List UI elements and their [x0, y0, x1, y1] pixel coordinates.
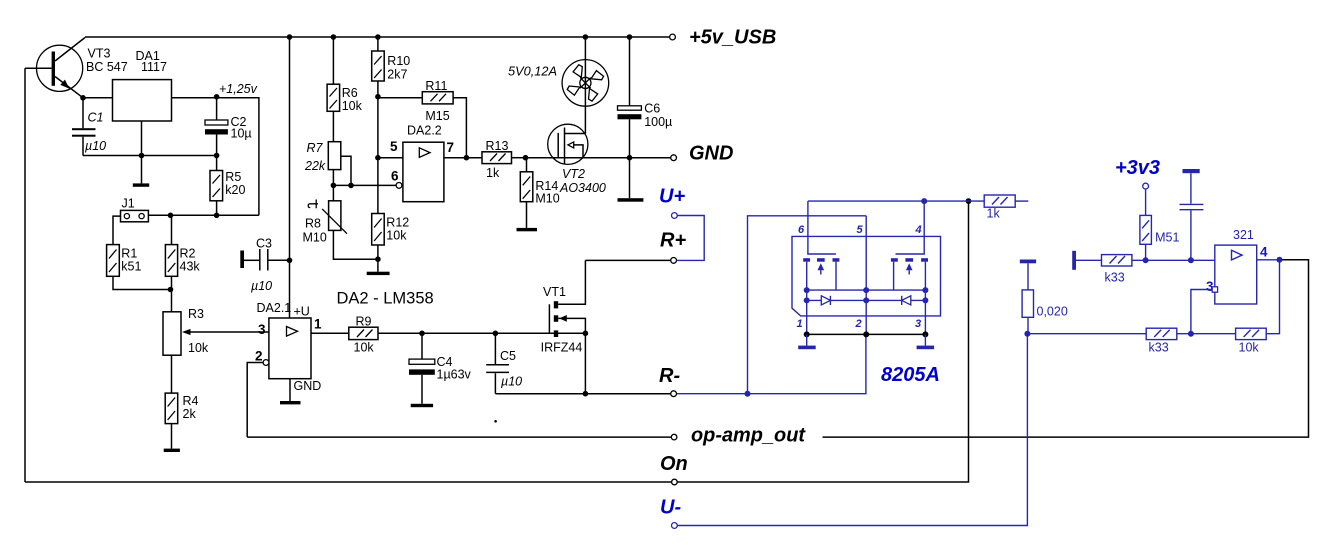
terminal R- [671, 391, 677, 397]
ground R14 [517, 228, 538, 231]
resistor R5 [210, 156, 246, 216]
node gnd row DA1 [139, 153, 145, 159]
terminal On [672, 479, 678, 485]
mosfet B drain column [893, 262, 895, 290]
capacitor C5 [486, 333, 522, 393]
wire DA1 out to +1,25v rail [172, 98, 259, 216]
terminal +3v3 [1143, 183, 1149, 189]
resistor k33 upper [1102, 255, 1132, 285]
capacitor C2 [205, 97, 252, 156]
8205A outline box [792, 236, 941, 316]
thermistor R8 [303, 185, 378, 259]
node J1 row R2 [168, 213, 174, 219]
mosfet B bars [891, 258, 898, 262]
svg-text:4: 4 [915, 224, 922, 236]
wire op-amp_out row [247, 436, 671, 438]
svg-text:op-amp_out: op-amp_out [691, 425, 806, 447]
node On to 1k rail junction [966, 198, 972, 204]
svg-text:5: 5 [390, 139, 398, 154]
resistor R2 [165, 215, 200, 289]
wire gnd row y156 [83, 155, 217, 157]
svg-text:10k: 10k [188, 341, 209, 355]
svg-text:4: 4 [1260, 245, 1268, 260]
mosfet A source column [806, 262, 808, 290]
node pin4 rail junction [921, 198, 927, 204]
resistor R1 [107, 245, 171, 290]
svg-text:+U: +U [294, 305, 310, 319]
wire to k33 upper [1076, 259, 1102, 261]
wire R- blue to 8205A [677, 334, 866, 393]
svg-text:+3v3: +3v3 [1115, 157, 1160, 179]
resistor R6 [327, 37, 363, 113]
mosfet A body arrow [818, 263, 825, 270]
svg-text:R+: R+ [660, 230, 686, 252]
svg-text:VT2: VT2 [562, 167, 585, 181]
svg-text:µ10: µ10 [501, 375, 522, 389]
diode D1 [821, 296, 830, 305]
svg-text:k20: k20 [225, 183, 245, 197]
regulator DA1 1117 [113, 49, 172, 121]
resistor 1k [984, 195, 1028, 221]
resistor k33 lower [1146, 328, 1177, 354]
ground R12 [377, 259, 379, 272]
svg-text:AO3400: AO3400 [559, 181, 606, 195]
node C4 junction [419, 331, 425, 337]
transistor VT3 [25, 38, 128, 98]
node top rail junction x629 [627, 34, 633, 40]
svg-text:C6: C6 [644, 102, 660, 116]
wire pin6 row [333, 184, 396, 186]
svg-text:10k: 10k [1239, 341, 1260, 355]
svg-text:M51: M51 [1155, 231, 1179, 245]
wire U- row [677, 334, 1027, 526]
resistor R10 [372, 37, 411, 97]
wire R- riser to pin5 [748, 216, 867, 394]
wire 1k rail y201 [808, 200, 984, 202]
ground pin3 [924, 334, 926, 345]
svg-text:R2: R2 [180, 247, 196, 261]
ground DA2.1 [289, 379, 291, 401]
node R7 bottom junction [331, 183, 337, 189]
svg-text:1: 1 [314, 317, 322, 332]
wire VT1 source down to R- row [584, 333, 586, 393]
wire k33 to op-amp input [1132, 259, 1215, 261]
wire 321 output [1257, 259, 1280, 261]
wire pin6 gate drop [808, 201, 836, 254]
svg-text:7: 7 [447, 140, 455, 155]
svg-text:321: 321 [1233, 228, 1254, 242]
wire R10 junction down to pin5 [377, 97, 379, 158]
node lower row junction [1188, 331, 1194, 337]
svg-text:R6: R6 [342, 86, 358, 100]
wire k33 to node [1177, 333, 1236, 335]
svg-text:BC 547: BC 547 [86, 60, 128, 74]
svg-text:k51: k51 [121, 260, 141, 274]
svg-text:M10: M10 [535, 192, 559, 206]
node M51 junction [1143, 257, 1149, 263]
wire pin3 column [924, 290, 926, 334]
svg-text:J1: J1 [122, 197, 135, 211]
svg-text:C3: C3 [256, 237, 272, 251]
wire +U vertical from top rail to DA2.1 [289, 37, 291, 318]
ground C4 [411, 404, 433, 407]
resistor R11 [378, 79, 467, 158]
wire U+ to R+ bracket [677, 216, 705, 261]
capacitor C6 [618, 37, 673, 158]
svg-text:6: 6 [798, 224, 805, 236]
svg-text:2k7: 2k7 [387, 68, 407, 82]
svg-text:1µ63v: 1µ63v [437, 368, 472, 382]
svg-text:µ10: µ10 [85, 139, 106, 153]
svg-text:1: 1 [797, 318, 803, 330]
terminal GND [671, 155, 677, 161]
wire pin1 column [806, 290, 808, 334]
svg-text:0,020: 0,020 [1037, 305, 1068, 319]
svg-text:10k: 10k [386, 229, 407, 243]
svg-text:R11: R11 [425, 79, 447, 93]
ground R4 [164, 449, 180, 452]
svg-text:1k: 1k [486, 166, 500, 180]
svg-text:M10: M10 [303, 231, 327, 245]
svg-text:R3: R3 [188, 307, 204, 321]
svg-text:22k: 22k [304, 159, 326, 173]
terminal op-amp_out [671, 434, 677, 440]
svg-text:5V0,12A: 5V0,12A [508, 65, 557, 79]
svg-text:DA2 - LM358: DA2 - LM358 [337, 290, 434, 308]
wire R3 wiper to DA2.1 pin3 with arrow [189, 331, 269, 333]
svg-text:VT3: VT3 [88, 47, 111, 61]
wire pin2 column [865, 216, 867, 335]
node VT3 emitter junction [80, 95, 86, 101]
wire emitter node to DA1 [83, 97, 113, 99]
wire VT3 base to On line (left edge) [24, 68, 26, 482]
node R1 R2 R3 junction [168, 287, 174, 293]
wire J1 row y215 [148, 214, 259, 216]
svg-text:k33: k33 [1149, 341, 1169, 355]
capacitor C4 [409, 333, 472, 404]
terminal R+ [671, 258, 677, 264]
node R10 R11 junction [375, 94, 381, 100]
wire On row right [677, 201, 968, 482]
node pin5 junction [375, 155, 381, 161]
svg-text:2k: 2k [183, 407, 197, 421]
terminal U- [672, 523, 678, 529]
node source row left [804, 287, 810, 293]
terminal +5v_USB [670, 34, 676, 40]
wire R- row [495, 393, 670, 395]
capacitor C3 [240, 237, 289, 294]
wire gate row to GND terminal [526, 157, 671, 159]
svg-text:U-: U- [660, 497, 681, 519]
svg-text:R-: R- [659, 365, 680, 387]
svg-text:VT1: VT1 [543, 285, 566, 299]
node diode row left [804, 297, 810, 303]
svg-text:GND: GND [689, 143, 733, 165]
op-amp 321 [1206, 228, 1268, 304]
resistor R9 [311, 315, 422, 355]
svg-text:43k: 43k [180, 260, 201, 274]
svg-text:1117: 1117 [141, 60, 167, 74]
svg-text:10µ: 10µ [231, 127, 252, 141]
node gnd row C2 [214, 153, 220, 159]
ground DA1 [141, 156, 143, 184]
node source row right [922, 287, 928, 293]
wire pins bottom row black [807, 333, 926, 335]
svg-text:3: 3 [258, 322, 266, 337]
op-amp DA2.1 [255, 301, 322, 393]
svg-text:1k: 1k [987, 207, 1001, 221]
svg-text:On: On [660, 453, 688, 475]
svg-text:100µ: 100µ [644, 115, 672, 129]
resistor 10k lower [1236, 328, 1267, 354]
node diode row right [922, 297, 928, 303]
svg-text:DA2.2: DA2.2 [407, 124, 442, 138]
wire R+ row [585, 259, 670, 261]
ground pin1 [806, 334, 808, 345]
node VT1 source junction [583, 331, 589, 337]
wire bottom row [1027, 333, 1146, 335]
wire +5v top rail [85, 36, 670, 38]
wire DA1 gnd pin [141, 121, 143, 156]
capacitor right section [1180, 169, 1204, 260]
wire pin4 gate drop [896, 201, 925, 254]
node 321 output junction [1277, 257, 1283, 263]
mosfet B source column [924, 262, 926, 290]
node shunt bottom junction [1024, 331, 1030, 337]
jumper J1 [121, 197, 149, 222]
mosfet B body arrow [906, 263, 913, 270]
node top rail junction x333 [331, 34, 337, 40]
svg-text:2: 2 [855, 318, 862, 330]
node pin1 bottom [804, 331, 810, 337]
svg-text:R9: R9 [356, 315, 372, 329]
op-amp DA2.2 [390, 124, 454, 202]
wire pin5 junction down to R12 [377, 158, 379, 214]
wire On row [25, 481, 671, 483]
stray dot [494, 420, 497, 423]
capacitor C1 [72, 98, 106, 156]
wire pin3 drop [1191, 290, 1212, 334]
wire pin5 to DA2.2 [378, 157, 403, 159]
node R- riser junction [745, 391, 751, 397]
svg-text:DA2.1: DA2.1 [257, 301, 292, 315]
resistor M51 [1140, 189, 1180, 260]
svg-text:R10: R10 [387, 54, 410, 68]
ground C6 [629, 158, 631, 199]
svg-text:C1: C1 [88, 111, 104, 125]
svg-text:R1: R1 [121, 247, 137, 261]
node C6 gnd row junction [627, 155, 633, 161]
node diode row mid [863, 297, 869, 303]
node top rail junction x585 [583, 34, 589, 40]
node DA2.2 out junction [464, 155, 470, 161]
svg-text:R7: R7 [307, 141, 324, 155]
node pin3 bottom [922, 331, 928, 337]
node top rail junction x378 [375, 34, 381, 40]
node C5 junction [493, 331, 499, 337]
node source row mid [863, 287, 869, 293]
svg-text:M15: M15 [425, 109, 449, 123]
svg-text:8205A: 8205A [881, 364, 940, 386]
trimmer R7 [304, 111, 351, 185]
resistor R14 [520, 158, 559, 228]
wire diode row y300 [807, 299, 926, 301]
resistor R4 [165, 393, 198, 449]
wire gate row to VT1 [422, 332, 585, 334]
svg-text:R4: R4 [183, 394, 199, 408]
svg-text:5: 5 [857, 224, 864, 236]
node pin2 bottom [863, 331, 869, 337]
svg-text:U+: U+ [659, 186, 685, 208]
terminal bar left [1072, 251, 1076, 270]
node cap junction [1188, 257, 1194, 263]
mosfet A drain column [835, 262, 837, 290]
diode D2 [902, 296, 911, 305]
svg-text:10k: 10k [342, 99, 363, 113]
node top rail junction x289 [287, 34, 293, 40]
shunt 0,020 [1020, 260, 1068, 334]
node R8 R12 gnd junction [375, 256, 381, 262]
resistor R13 [444, 139, 526, 180]
svg-text:R12: R12 [386, 216, 409, 230]
svg-text:6: 6 [391, 169, 399, 184]
resistor R12 [372, 214, 410, 260]
wire DA2.1 pin2 to op-amp_out [247, 363, 263, 438]
svg-text:+1,25v: +1,25v [219, 82, 258, 96]
svg-text:IRFZ44: IRFZ44 [541, 341, 583, 355]
node R7 wiper junction [348, 183, 354, 189]
svg-text:GND: GND [294, 379, 322, 393]
svg-text:R13: R13 [486, 139, 509, 153]
node +1,25v junction [214, 94, 220, 100]
svg-text:10k: 10k [354, 341, 375, 355]
svg-text:R8: R8 [305, 217, 321, 231]
svg-text:k33: k33 [1105, 271, 1125, 285]
svg-text:3: 3 [915, 318, 921, 330]
wire J1 left to R1 [113, 216, 121, 245]
transistor VT2 AO3400 [548, 124, 606, 195]
fan motor [562, 37, 609, 134]
wire op-amp_out right segment [823, 260, 1309, 437]
mosfet A bars [803, 258, 810, 262]
svg-text:2: 2 [255, 349, 263, 364]
node R13 R14 VT2 junction [523, 155, 529, 161]
node J1 row R5 [214, 213, 220, 219]
transistor VT1 IRFZ44 [541, 260, 586, 354]
node C3 / +U junction [287, 258, 293, 264]
svg-text:R5: R5 [225, 170, 241, 184]
terminal U+ [672, 213, 678, 219]
wire 10k to output node [1266, 260, 1279, 334]
svg-text:C5: C5 [500, 349, 516, 363]
svg-text:+5v_USB: +5v_USB [689, 27, 776, 49]
potentiometer R3 [163, 290, 209, 394]
wire source row y290 [807, 289, 926, 291]
node R- row junction [583, 391, 589, 397]
svg-text:µ10: µ10 [251, 279, 272, 293]
